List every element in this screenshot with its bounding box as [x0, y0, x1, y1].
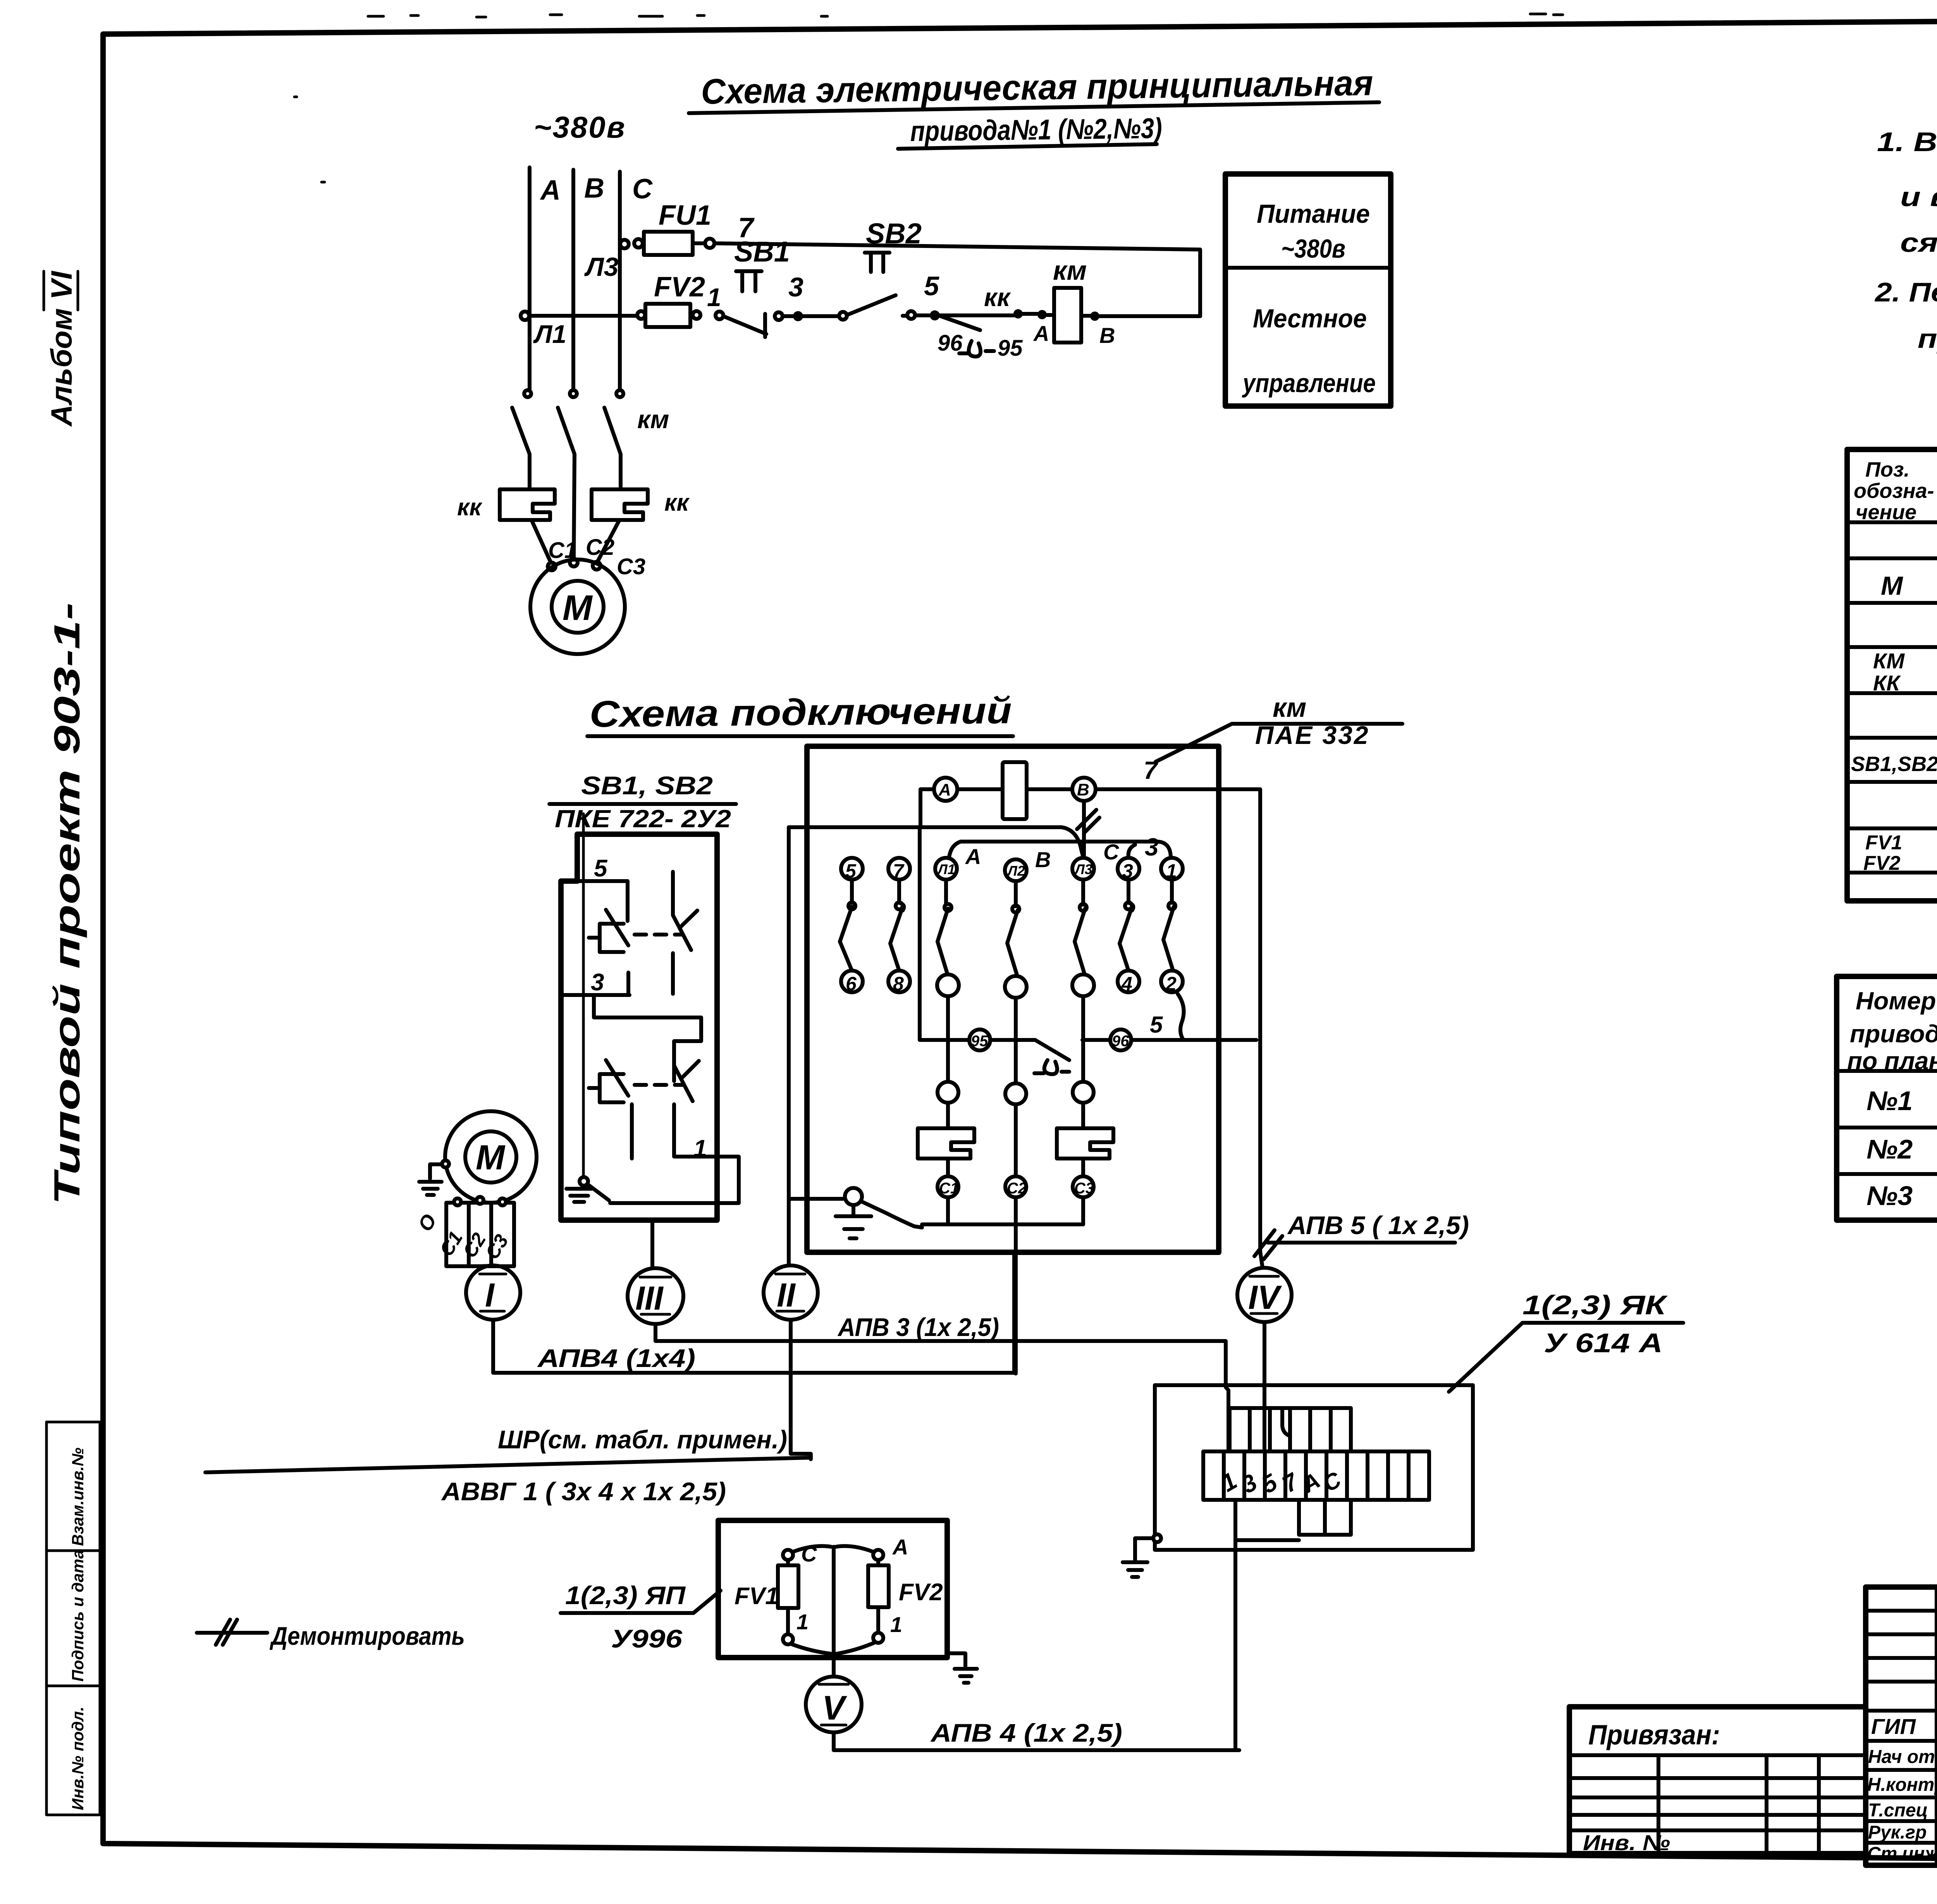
fuse cabinet YaP U996 [561, 1520, 977, 1683]
svg-text:Инв.№ подл.: Инв.№ подл. [69, 1707, 87, 1810]
svg-text:SB1,SB2: SB1,SB2 [1851, 752, 1937, 776]
svg-text:Л2: Л2 [1006, 863, 1025, 879]
svg-text:М: М [563, 588, 593, 628]
svg-text:КМ: КМ [1873, 649, 1905, 673]
KM main contact phase C [604, 390, 669, 489]
demontage mark on B wire [1077, 801, 1099, 856]
wire hook inside [1282, 1408, 1290, 1436]
push-button station box SB1,SB2 [561, 814, 739, 1220]
svg-text:по плану: по плану [1847, 1047, 1937, 1075]
privyazan table [1569, 1707, 1866, 1855]
svg-text:привода.: привода. [1918, 324, 1937, 354]
terminal B [1072, 778, 1096, 801]
label YaK [1449, 1290, 1683, 1392]
svg-text:А: А [1033, 321, 1049, 346]
ground right [947, 1653, 977, 1683]
svg-text:96: 96 [938, 331, 963, 356]
center stub below SB2 [630, 1104, 634, 1159]
svg-text:Рук.гр: Рук.гр [1868, 1822, 1927, 1843]
thermal contact KK [938, 283, 1049, 361]
svg-text:№1: №1 [1866, 1086, 1913, 1116]
svg-text:С2: С2 [586, 535, 614, 560]
fixed contact points [848, 902, 855, 909]
svg-text:М: М [1881, 571, 1903, 601]
contact 3-4 [1120, 880, 1133, 971]
wire to cable I [480, 1266, 490, 1266]
cable circle IV [1237, 1268, 1292, 1322]
svg-text:С: С [801, 1542, 817, 1566]
cable APV5(1x2,5): IV up [1254, 1211, 1469, 1451]
svg-text:А: А [965, 844, 981, 869]
svg-text:№2: №2 [1866, 1134, 1913, 1164]
terminal A [934, 778, 957, 801]
svg-text:М: М [476, 1138, 506, 1177]
contact 5-6 [840, 880, 852, 971]
svg-text:95: 95 [971, 1033, 988, 1050]
dashed link [635, 933, 683, 937]
svg-text:чение: чение [1856, 501, 1916, 524]
svg-text:Демонтировать: Демонтировать [270, 1622, 465, 1650]
cable APV4(1x2,5): V to YaK [834, 1718, 1239, 1750]
button SB1 (NC) [723, 236, 790, 337]
label KM PAE332 [1156, 692, 1402, 762]
svg-text:Л1: Л1 [533, 320, 566, 348]
button SB1 upper: actuator [589, 924, 624, 952]
terminal 5 wire [561, 881, 628, 921]
svg-text:С1: С1 [939, 1180, 959, 1197]
magnetic starter box KM PAE332 [789, 746, 1260, 1374]
right contact of SB2 [674, 1061, 699, 1101]
wire: thermal relay circuit 95-96 [920, 827, 969, 1040]
fuse FU1 [644, 200, 711, 255]
scan noise dashes top [294, 14, 1937, 182]
svg-text:~380в: ~380в [534, 110, 626, 144]
svg-text:управление: управление [1242, 368, 1376, 398]
svg-text:1(2,3) ЯП: 1(2,3) ЯП [565, 1581, 686, 1610]
svg-text:2: 2 [1165, 973, 1177, 995]
KM main contact phase A [512, 390, 531, 489]
svg-text:FV2: FV2 [654, 272, 705, 303]
svg-text:Привязан:: Привязан: [1588, 1720, 1720, 1751]
bottom tie line [922, 1197, 1083, 1224]
phase bus C [618, 172, 622, 389]
wire 7 from phase C through FU1 [620, 239, 644, 248]
svg-text:7: 7 [1144, 756, 1159, 784]
svg-text:А: А [540, 175, 561, 206]
svg-text:3: 3 [1145, 833, 1159, 861]
svg-text:Взам.инв.№: Взам.инв.№ [69, 1448, 87, 1546]
thermal heater KK right [570, 489, 690, 570]
svg-text:1(2,3) ЯК: 1(2,3) ЯК [1522, 1290, 1668, 1320]
cable circle II [764, 1265, 818, 1320]
svg-text:А: А [892, 1535, 908, 1559]
svg-text:I: I [485, 1277, 495, 1314]
terminal 1 wire loop [610, 1104, 739, 1203]
svg-text:4: 4 [1121, 973, 1132, 995]
svg-text:Типовой проект 903-1-: Типовой проект 903-1- [46, 603, 87, 1205]
svg-text:2. Перечень элементов приведе: 2. Перечень элементов приведен для одног… [1874, 277, 1937, 307]
svg-text:и в кабельном журнале вперед: и в кабельном журнале впереди проставляе… [1900, 182, 1937, 212]
box: power / local control [1225, 174, 1391, 406]
svg-text:3: 3 [788, 272, 803, 302]
margin stamp table [46, 1422, 100, 1815]
terminal cabinet YaK U614A [1123, 1385, 1473, 1750]
svg-text:кк: кк [664, 489, 690, 516]
contact 1-2 [1163, 880, 1174, 971]
svg-text:SB2: SB2 [866, 217, 922, 250]
svg-text:FV2: FV2 [1863, 852, 1900, 875]
svg-text:ШР(см. табл. примен.): ШР(см. табл. примен.) [498, 1425, 787, 1454]
internal link to lower cells [1235, 1538, 1299, 1542]
svg-text:А: А [938, 780, 951, 799]
svg-text:В: В [1035, 847, 1051, 872]
svg-text:Подпись и дата: Подпись и дата [69, 1550, 87, 1682]
main contact L3 [1075, 880, 1085, 973]
step link to lower button [594, 997, 701, 1081]
main contact L1 [938, 880, 948, 973]
cable circle I [466, 1265, 520, 1320]
button SB2 lower: actuator [589, 1074, 624, 1102]
upper cell row [1230, 1408, 1351, 1451]
node 3 [783, 272, 839, 321]
label SB1,SB2 PKE722-2U2 [549, 771, 736, 833]
svg-text:III: III [635, 1280, 664, 1317]
ground with disconnect inside box [580, 1177, 588, 1186]
svg-text:км: км [1273, 692, 1306, 723]
svg-text:С3: С3 [1074, 1180, 1094, 1197]
motor ground [419, 1164, 446, 1195]
lower cell row [1299, 1500, 1351, 1535]
line L1: from II wire to L3 hook [789, 827, 1083, 857]
svg-text:5: 5 [594, 855, 608, 882]
blade [606, 910, 628, 945]
svg-text:№3: №3 [1866, 1181, 1913, 1211]
cable APV4(1x4): I to C2 wire [493, 1252, 1014, 1373]
main contact L2 [1007, 881, 1018, 975]
svg-text:SB1, SB2: SB1, SB2 [581, 771, 713, 800]
svg-text:АПВ4 (1х4): АПВ4 (1х4) [537, 1344, 695, 1372]
cable core down the left [582, 814, 585, 1179]
svg-text:V: V [822, 1689, 847, 1727]
phase bus B [571, 170, 575, 389]
svg-text:95: 95 [998, 336, 1023, 361]
svg-text:У996: У996 [611, 1624, 683, 1653]
svg-text:5: 5 [1150, 1012, 1163, 1038]
svg-text:АПВ 4 (1х 2,5): АПВ 4 (1х 2,5) [930, 1718, 1122, 1747]
wire from SB box to III [650, 1220, 654, 1268]
svg-text:Л1: Л1 [937, 861, 955, 877]
svg-text:КК: КК [1873, 671, 1901, 695]
svg-text:привода№1 (№2,№3): привода№1 (№2,№3) [910, 112, 1162, 147]
svg-text:8: 8 [893, 973, 904, 995]
svg-text:Н.контр: Н.контр [1867, 1775, 1937, 1795]
button SB2 (NO) [839, 217, 922, 320]
svg-text:Т.спец: Т.спец [1868, 1800, 1928, 1821]
phase bus A [528, 167, 532, 389]
cable ShR: II down to trunk [205, 1320, 811, 1506]
svg-text:1. В маркировке аппаратов, п: 1. В маркировке аппаратов, проводов , ка… [1877, 127, 1937, 157]
svg-text:Л3: Л3 [1074, 861, 1092, 877]
svg-text:С2: С2 [1007, 1180, 1027, 1197]
svg-text:ГИП: ГИП [1871, 1714, 1916, 1739]
svg-text:кк: кк [457, 494, 482, 521]
cable circle V [806, 1677, 862, 1732]
margin label: album [44, 270, 78, 427]
thermal heater KK left [457, 489, 556, 570]
svg-text:FV1: FV1 [1865, 831, 1902, 854]
bottom exit wire [1233, 1500, 1237, 1750]
svg-text:км: км [1053, 255, 1087, 286]
terminals C1 C2 C3 [938, 1176, 958, 1197]
motor M (principal) [530, 559, 625, 654]
svg-text:В: В [1099, 323, 1115, 348]
svg-text:АВВГ 1 ( 3х 4 х 1х 2,5): АВВГ 1 ( 3х 4 х 1х 2,5) [441, 1477, 726, 1506]
terminal circles row [841, 858, 863, 880]
phase wires with lower circles [946, 996, 950, 1082]
center link [793, 1546, 873, 1676]
svg-text:Нач отд: Нач отд [1868, 1747, 1937, 1767]
wire 5 from terminal 2 down [1178, 994, 1184, 1040]
KM main contact phase B [558, 390, 577, 559]
svg-text:II: II [777, 1277, 796, 1314]
terminal strip [1203, 1451, 1429, 1500]
thermal heater KK phase A (connection diagram) [946, 1103, 950, 1128]
svg-text:~380в: ~380в [1281, 234, 1345, 263]
svg-text:1: 1 [707, 283, 721, 312]
svg-text:Альбом VI: Альбом VI [45, 270, 78, 427]
ground with disconnect link (PAE box) [791, 1197, 843, 1201]
svg-text:ПКЕ 722- 2У2: ПКЕ 722- 2У2 [555, 805, 731, 833]
svg-text:ся номер электропривода.: ся номер электропривода. [1900, 227, 1937, 258]
svg-text:Питание: Питание [1257, 199, 1370, 229]
svg-text:км: км [637, 405, 669, 434]
svg-text:В: В [1077, 780, 1089, 799]
svg-text:1: 1 [693, 1135, 707, 1162]
control wire from phase A (L1) [521, 311, 645, 348]
wire: terminal A - coil - terminal B [957, 787, 1072, 791]
svg-text:1: 1 [796, 1610, 809, 1634]
line L2: L1..1 terminals [949, 842, 1171, 857]
thermal heater KK phase C (connection diagram) [1081, 1103, 1085, 1128]
svg-text:Поз.: Поз. [1865, 458, 1909, 481]
svg-text:Номер: Номер [1856, 987, 1936, 1015]
wire 7 continues right then down [693, 212, 1200, 316]
svg-text:Л3: Л3 [584, 252, 619, 282]
svg-text:С3: С3 [617, 554, 645, 579]
right contact of SB1 [673, 872, 697, 994]
svg-text:Инв. №: Инв. № [1583, 1830, 1670, 1855]
svg-text:3: 3 [591, 969, 604, 996]
terminal 3 wire [561, 973, 630, 995]
margin label: project [46, 603, 87, 1205]
svg-text:кк: кк [984, 283, 1011, 312]
svg-text:У 614 А: У 614 А [1544, 1328, 1663, 1358]
phase B wire [1014, 1104, 1018, 1176]
contactor coil KM [1047, 255, 1200, 348]
contactor coil KM (connection diagram) [1003, 762, 1027, 819]
wire to SB1 [693, 283, 723, 319]
svg-text:5: 5 [924, 271, 939, 301]
svg-text:FU1: FU1 [659, 200, 711, 231]
svg-text:Схема подключений: Схема подключений [589, 690, 1012, 735]
motor M (connection diagram) [414, 1111, 537, 1266]
svg-text:Ст.инж: Ст.инж [1867, 1844, 1937, 1864]
svg-text:FV1: FV1 [735, 1583, 779, 1610]
fuse FV1 [783, 1550, 793, 1560]
svg-text:96: 96 [1112, 1033, 1129, 1050]
cable APV3(1x2,5): III right to YK [655, 1313, 1228, 1451]
svg-text:С: С [1103, 840, 1120, 864]
svg-text:обозна-: обозна- [1854, 479, 1934, 503]
ground left [1153, 1534, 1161, 1542]
svg-text:FV2: FV2 [899, 1579, 943, 1606]
horizontal lines [1837, 1010, 1937, 1174]
fuse FV2 [645, 272, 705, 327]
wire 7: from B to right side, down to cable IV [1096, 789, 1260, 1252]
legend: demontage [197, 1620, 465, 1650]
table grid [1847, 449, 1937, 901]
svg-text:1: 1 [890, 1612, 902, 1637]
terminal box [446, 1203, 514, 1266]
svg-text:6: 6 [846, 973, 857, 995]
svg-text:SB1: SB1 [734, 236, 790, 268]
svg-text:АПВ 5 ( 1х 2,5): АПВ 5 ( 1х 2,5) [1287, 1211, 1469, 1239]
svg-text:IV: IV [1248, 1279, 1282, 1316]
svg-text:В: В [584, 173, 604, 204]
wire from A down-left [920, 789, 934, 827]
contact 7-8 [890, 880, 904, 971]
svg-text:С: С [632, 174, 653, 205]
node 5 [915, 271, 1015, 320]
svg-text:АПВ 3 (1х 2,5): АПВ 3 (1х 2,5) [837, 1313, 999, 1341]
main title [689, 63, 1379, 149]
fuse FV2 [873, 1550, 883, 1560]
cable circle III [628, 1268, 683, 1324]
svg-text:Местное: Местное [1253, 304, 1367, 333]
outer and grid of signatures [1866, 1587, 1937, 1865]
C2 wire exits bottom [1014, 1197, 1018, 1374]
svg-text:привода: привода [1850, 1020, 1937, 1048]
